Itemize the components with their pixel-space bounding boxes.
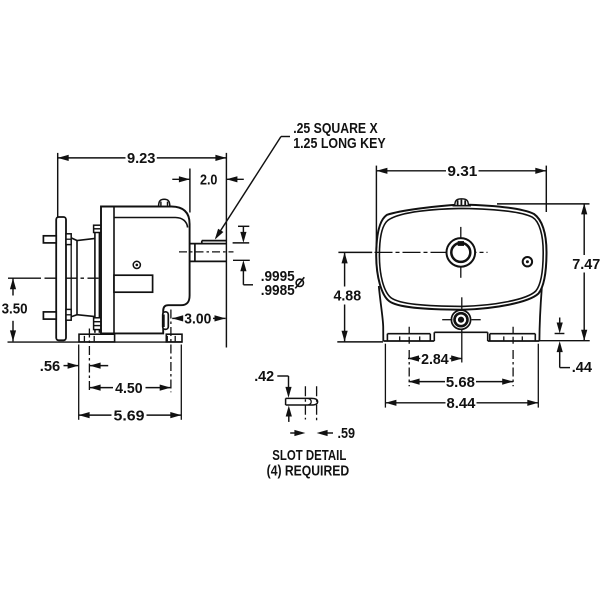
flange cone hub (71, 238, 95, 317)
flange plate (56, 217, 66, 340)
dimension 5.68 (409, 374, 514, 391)
shaft diameter arrows (238, 226, 253, 284)
side foot slot (vertical) (163, 312, 169, 330)
upper mounting stud (43, 236, 56, 243)
output shaft (190, 244, 226, 262)
front right pad slot marks (504, 336, 523, 340)
front left pad slot marks (400, 336, 420, 340)
svg-text:8.44: 8.44 (447, 395, 476, 412)
extension line 9.31 left (375, 166, 377, 248)
slot detail outline (286, 398, 318, 405)
front body outer outline (376, 205, 546, 310)
extension lines 8.44 (385, 344, 538, 408)
extension line 7.47 bottom (540, 340, 590, 342)
front top breather cap (453, 199, 471, 206)
svg-text:4.50: 4.50 (115, 380, 143, 397)
front horizontal centerline (338, 251, 487, 253)
front right foot pad (490, 334, 536, 341)
lower stud nut (66, 309, 71, 320)
key callout leader (215, 137, 290, 240)
extension line 9.23 left (57, 153, 59, 217)
gearbox face bolt bottom (94, 318, 102, 330)
svg-text:.56: .56 (40, 358, 61, 375)
shaft diameter text (261, 268, 295, 299)
dimension 4.50 (90, 380, 171, 397)
dimension .44 (555, 318, 593, 377)
dimension 3.50 (2, 278, 28, 341)
flange axis centerline (8, 277, 111, 279)
svg-text:1.25 LONG KEY: 1.25 LONG KEY (293, 135, 386, 152)
front left foot pad (387, 334, 430, 341)
dimension 2.0 (172, 172, 244, 189)
side body plug circle (133, 261, 140, 268)
side foot extension lines (79, 345, 182, 420)
body cover seam line (114, 218, 188, 228)
ground baseline under side view (8, 341, 183, 343)
upper stud nut (66, 234, 71, 245)
svg-text:SLOT DETAIL: SLOT DETAIL (272, 447, 346, 464)
front shaft bore (451, 243, 470, 262)
extension line 9.31 right (545, 166, 547, 212)
svg-text:2.84: 2.84 (421, 351, 449, 368)
front skirt right edge (539, 288, 541, 341)
slot detail caption (267, 447, 350, 480)
dimension 8.44 (385, 395, 538, 412)
svg-text:5.69: 5.69 (114, 407, 145, 424)
svg-text:.59: .59 (338, 425, 356, 442)
dimension 7.47 (572, 203, 600, 340)
svg-text:2.0: 2.0 (200, 172, 218, 189)
front bottom bolt ticks (442, 319, 481, 321)
front shaft outer circle (447, 238, 476, 267)
svg-text:.44: .44 (572, 359, 593, 376)
dimension 2.84 (408, 351, 462, 368)
svg-text:9.23: 9.23 (127, 150, 156, 167)
dimension 9.31 (376, 163, 546, 180)
svg-text:3.50: 3.50 (2, 301, 28, 318)
front base bottom edges (383, 340, 539, 342)
key callout text (293, 120, 386, 152)
slot detail centerlines (305, 386, 316, 421)
front base center recess (434, 332, 487, 341)
front right plug circle (523, 257, 532, 266)
svg-text:9.31: 9.31 (447, 163, 477, 180)
front skirt left edge (379, 286, 384, 341)
lower mounting stud (43, 312, 56, 319)
front vertical centerline bottom (461, 297, 463, 362)
motor bell seam (113, 207, 115, 334)
side left foot slot marks (84, 336, 94, 341)
side left foot (79, 334, 115, 342)
dimension 5.69 (79, 407, 182, 424)
diameter symbol (295, 277, 304, 288)
front left slot centerline (408, 327, 410, 387)
gearbox face bolt top (94, 225, 102, 232)
shaft centerline (179, 251, 234, 253)
front shaft bore crosshair vertical (460, 227, 462, 278)
nameplate (114, 275, 153, 292)
gearbox front face (95, 227, 100, 333)
side slot centerlines (89, 310, 170, 393)
front body inner outline (379, 208, 543, 306)
side right foot (166, 334, 182, 342)
extension line shaft end (225, 153, 227, 348)
svg-text:.9985: .9985 (261, 282, 295, 299)
front bottom bolt (451, 310, 470, 329)
dimension .59 (290, 425, 355, 442)
dimension 4.88 (333, 252, 361, 341)
side top breather cap (157, 199, 172, 206)
svg-text:7.47: 7.47 (572, 256, 600, 273)
shaft key (202, 241, 227, 244)
front shaft keyway (458, 241, 464, 246)
motor body outline (101, 207, 190, 334)
dimension 9.23 (58, 150, 227, 167)
svg-text:3.00: 3.00 (184, 311, 211, 328)
extension line 2.0 left (189, 169, 191, 213)
shaft diameter extension lines (233, 243, 250, 260)
extension line 7.47 top (497, 203, 590, 205)
dimension 3.00 (172, 311, 225, 328)
svg-text:5.68: 5.68 (446, 374, 475, 391)
side right foot slot marks (167, 336, 175, 341)
svg-text:4.88: 4.88 (333, 288, 361, 305)
extension line 4.88 bottom (337, 341, 383, 343)
dimension .56 (40, 358, 108, 375)
svg-text:.42: .42 (254, 368, 274, 385)
svg-text:(4) REQUIRED: (4) REQUIRED (267, 463, 350, 480)
dimension .42 (254, 368, 292, 422)
front right slot centerline (512, 327, 514, 387)
